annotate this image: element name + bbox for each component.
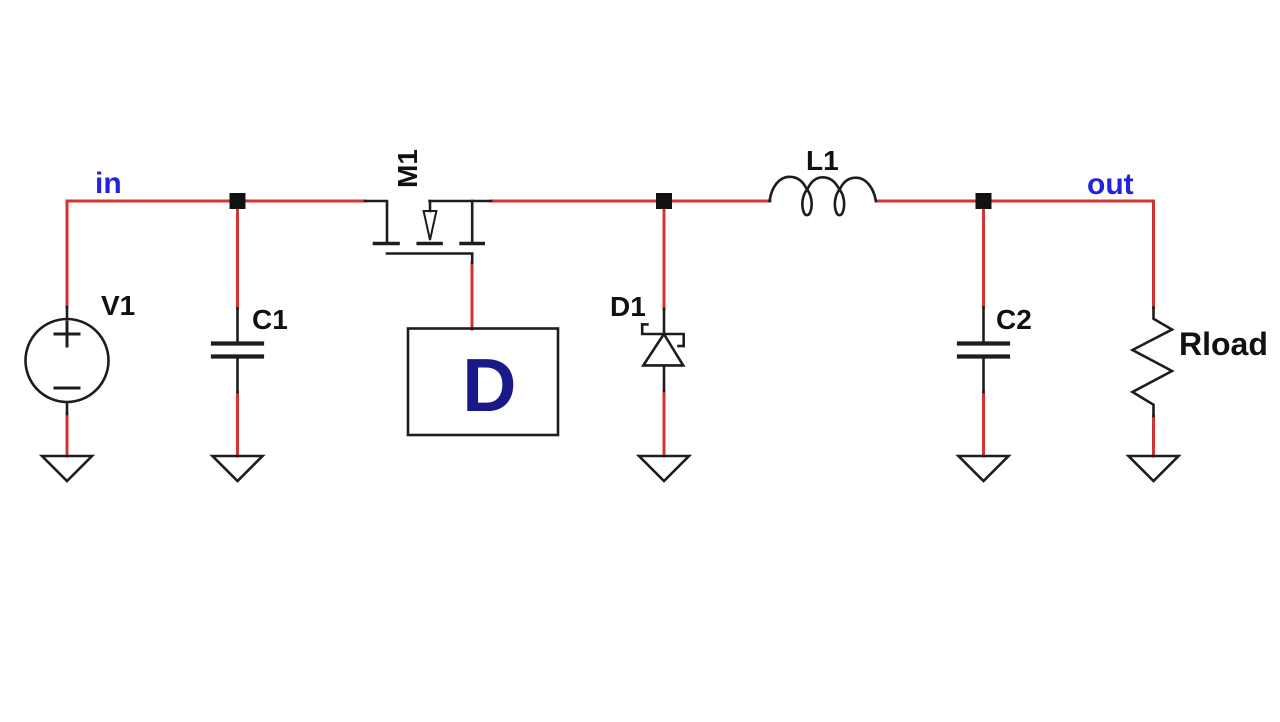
ground (V1) bbox=[42, 456, 92, 481]
junction at L1/C2/out bbox=[976, 193, 992, 209]
junction at D1/L1 bbox=[656, 193, 672, 209]
diode D1 (schottky) bbox=[642, 309, 684, 391]
ground (C2) bbox=[959, 456, 1009, 481]
svg-text:M1: M1 bbox=[392, 149, 423, 188]
wire: M1 gate to D block bbox=[471, 263, 474, 329]
svg-text:in: in bbox=[95, 167, 122, 200]
svg-text:V1: V1 bbox=[101, 290, 135, 321]
svg-text:C2: C2 bbox=[996, 304, 1032, 335]
svg-text:L1: L1 bbox=[806, 145, 839, 176]
svg-text:D1: D1 bbox=[610, 291, 646, 322]
voltage source V1 bbox=[26, 307, 109, 414]
wire: L1 right to C2 junction to out corner, down to Rload bbox=[876, 201, 1154, 308]
svg-text:D: D bbox=[462, 343, 516, 427]
ground (C1) bbox=[213, 456, 263, 481]
wire: Rload bottom to ground bbox=[1152, 416, 1155, 456]
wire: M1 source to D1 junction to L1 bbox=[491, 200, 770, 203]
junction at C1/top rail bbox=[230, 193, 246, 209]
svg-text:Rload: Rload bbox=[1179, 326, 1268, 362]
wire: D1 branch down from junction bbox=[663, 201, 666, 309]
resistor Rload bbox=[1133, 308, 1173, 417]
wire: C2 bottom to ground bbox=[982, 392, 985, 456]
capacitor C2 bbox=[959, 308, 1008, 393]
block D (duty-cycle source) bbox=[408, 329, 558, 436]
capacitor C1 bbox=[213, 309, 262, 393]
transistor M1 (PMOS, rotated) bbox=[365, 201, 491, 263]
wire: top rail from V1 to M1 drain bbox=[67, 201, 365, 307]
wire: D1 bottom to ground bbox=[663, 391, 666, 456]
svg-text:out: out bbox=[1087, 168, 1134, 201]
wire: C1 bottom to ground bbox=[236, 392, 239, 456]
wire: C2 branch down from junction bbox=[982, 201, 985, 308]
wire: C1 branch down from junction bbox=[236, 201, 239, 309]
wire: V1 bottom to ground bbox=[66, 414, 69, 456]
ground (Rload) bbox=[1129, 456, 1179, 481]
inductor L1 bbox=[770, 177, 876, 215]
ground (D1) bbox=[639, 456, 689, 481]
svg-text:C1: C1 bbox=[252, 304, 288, 335]
